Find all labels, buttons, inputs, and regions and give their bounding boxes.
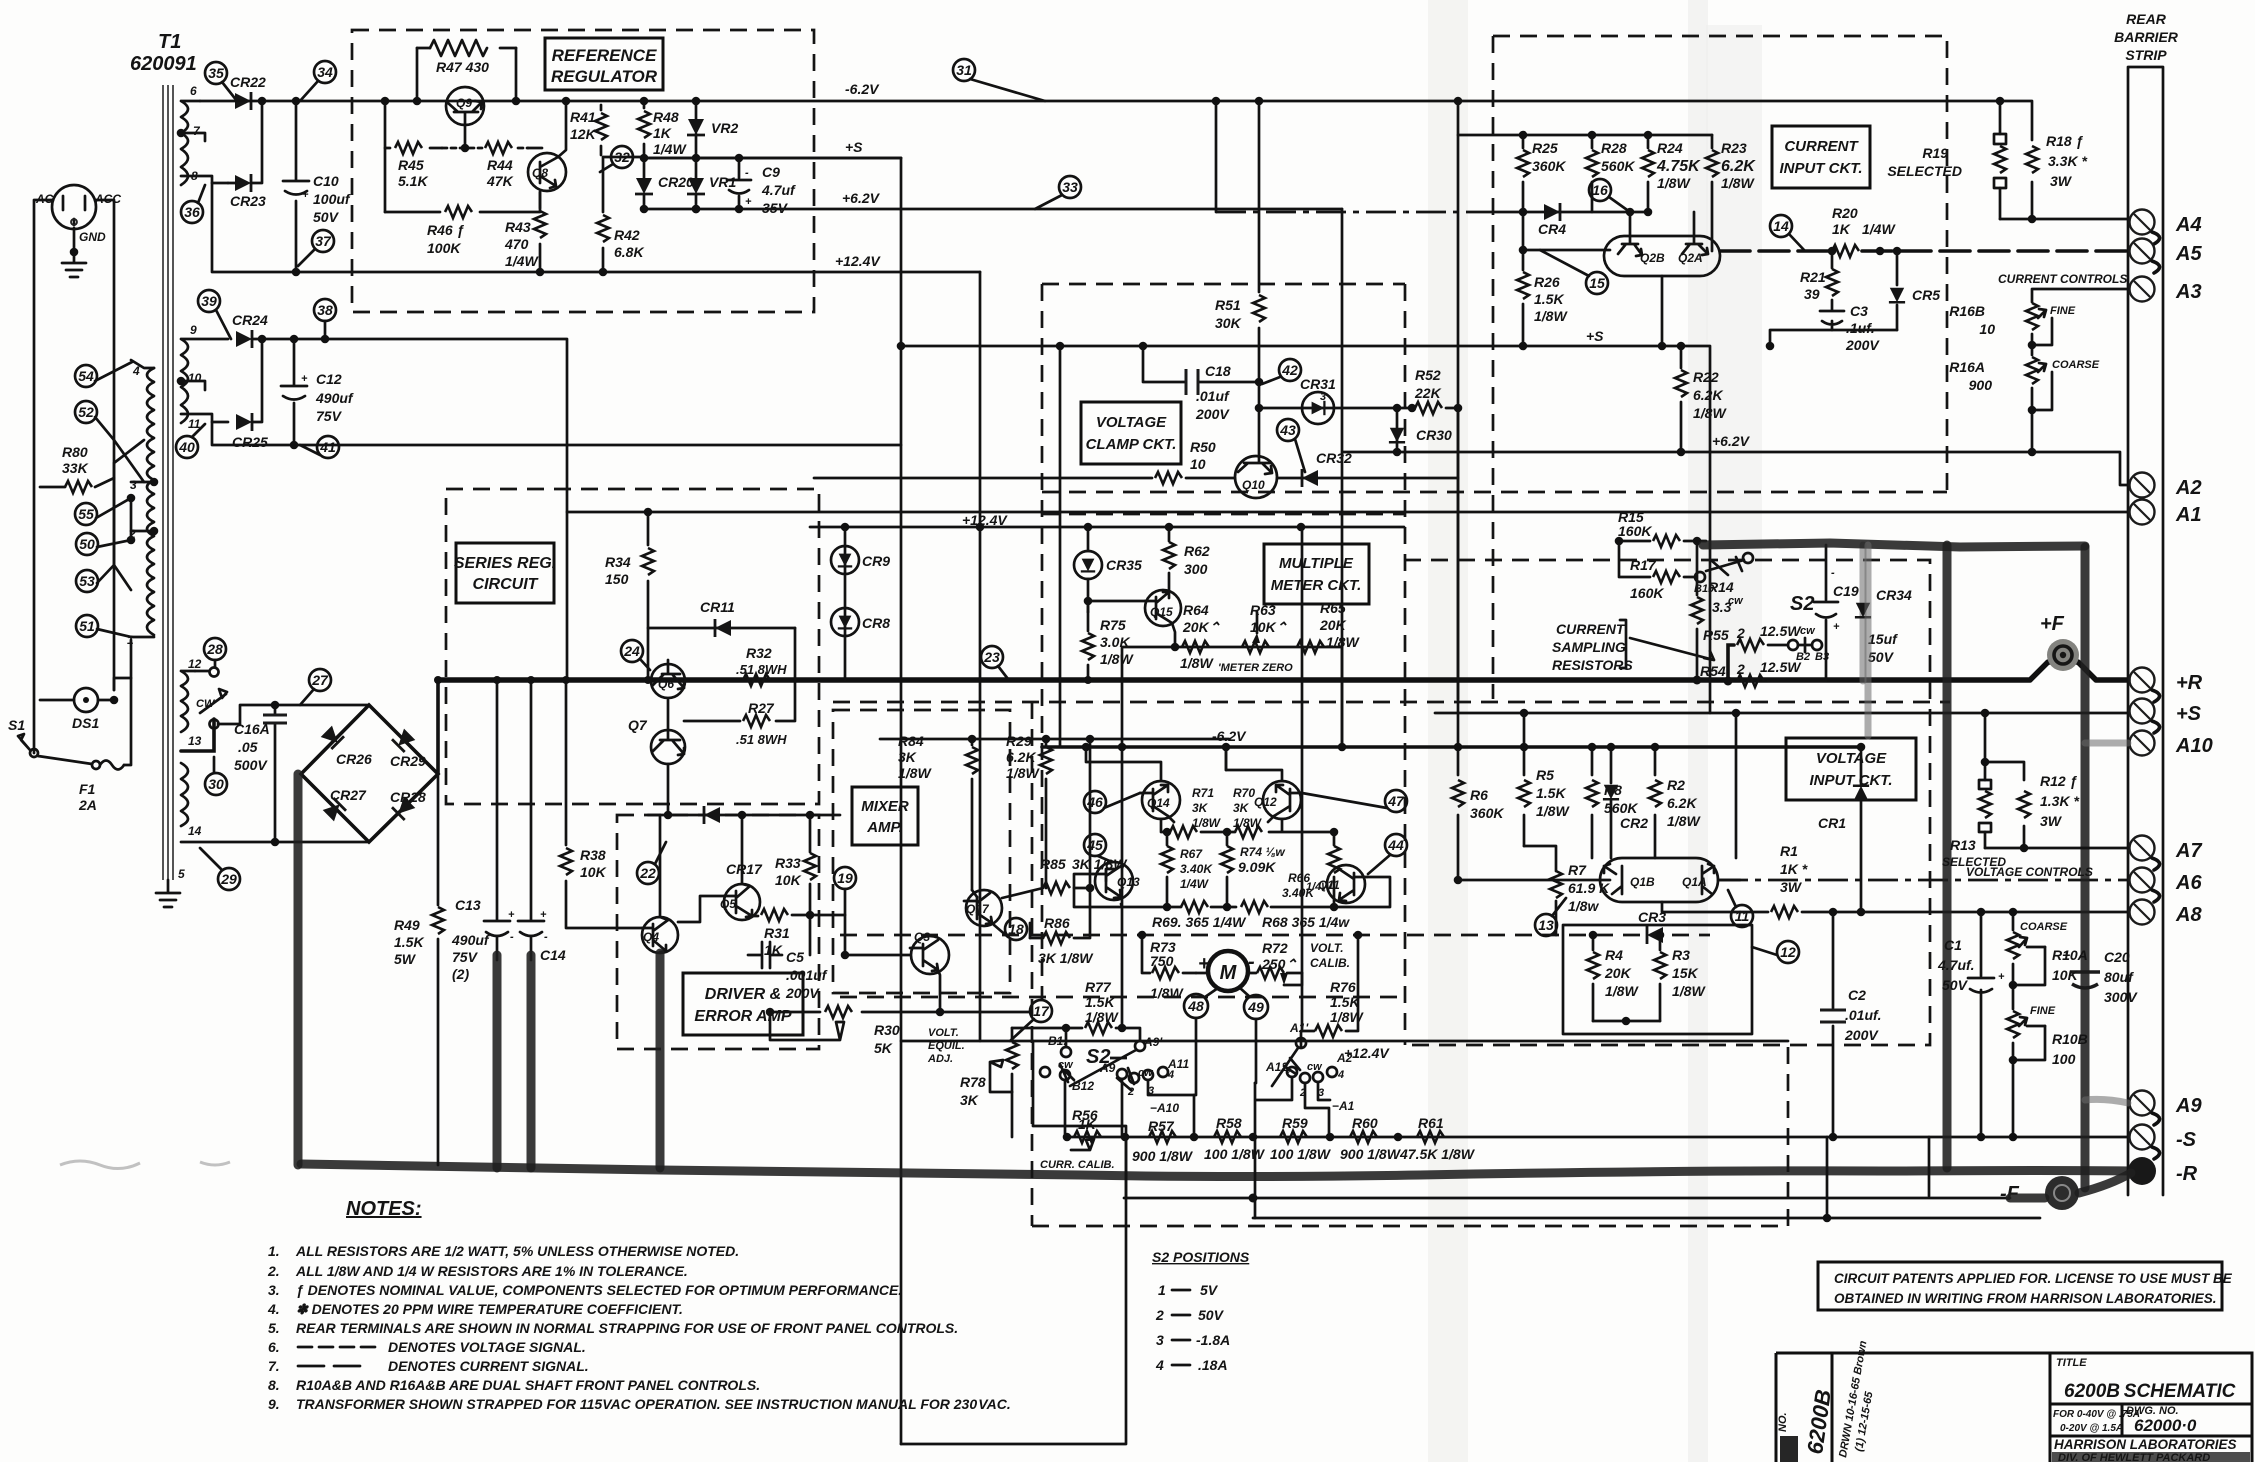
svg-text:35V: 35V xyxy=(762,200,789,216)
svg-text:R54: R54 xyxy=(1700,663,1726,679)
heavy wire Q4 emitter down xyxy=(656,953,665,1168)
wire -6.2 feed xyxy=(1082,743,1091,752)
svg-text:R10B: R10B xyxy=(2052,1031,2088,1047)
wire C3 CR5 bottom xyxy=(1770,330,1897,346)
svg-text:+6.2V: +6.2V xyxy=(1712,433,1751,449)
svg-text:.51 8WH: .51 8WH xyxy=(736,732,787,747)
resistor R18 xyxy=(2000,101,2087,223)
svg-text:100 1/8W: 100 1/8W xyxy=(1204,1146,1266,1162)
wire y1198 xyxy=(1124,1197,2010,1200)
svg-text:CURRENT CONTROLS: CURRENT CONTROLS xyxy=(1998,272,2127,286)
svg-text:R60: R60 xyxy=(1352,1115,1378,1131)
resistor R59 xyxy=(1270,1115,1332,1162)
svg-text:S2: S2 xyxy=(1790,593,1814,615)
svg-text:R29: R29 xyxy=(1006,733,1032,749)
svg-text:+F: +F xyxy=(2040,613,2065,635)
svg-text:R42: R42 xyxy=(614,227,640,243)
resistor R24 xyxy=(1642,135,1701,212)
wire +6.2V right xyxy=(1342,209,2128,747)
resistor R21 xyxy=(1800,251,1838,310)
svg-text:+: + xyxy=(1998,971,2005,983)
svg-text:R3: R3 xyxy=(1672,947,1690,963)
svg-text:43: 43 xyxy=(1279,422,1296,438)
svg-text:R51: R51 xyxy=(1215,297,1241,313)
terminal A5 xyxy=(2130,239,2203,274)
svg-text:1.5K: 1.5K xyxy=(1536,785,1566,801)
svg-text:52: 52 xyxy=(78,404,94,420)
node 40 xyxy=(176,424,205,458)
resistor R85 xyxy=(1002,735,1128,898)
svg-text:CALIB.: CALIB. xyxy=(1310,956,1350,970)
svg-text:13: 13 xyxy=(188,734,202,748)
svg-text:Q1A: Q1A xyxy=(1682,875,1707,889)
node 51 xyxy=(76,615,131,637)
wire Q4 collector xyxy=(660,815,668,920)
svg-text:1/8W: 1/8W xyxy=(1721,175,1755,191)
svg-text:6.2K: 6.2K xyxy=(1006,749,1036,765)
transistor Q3 xyxy=(910,930,949,974)
svg-text:160K: 160K xyxy=(1618,523,1652,539)
svg-text:Q11: Q11 xyxy=(1318,878,1340,892)
svg-text:3K 1/8W: 3K 1/8W xyxy=(1038,950,1094,966)
svg-text:48: 48 xyxy=(1187,998,1204,1014)
svg-text:4.75K: 4.75K xyxy=(1656,158,1701,175)
svg-text:-6.2V: -6.2V xyxy=(845,81,880,97)
resistor R42 xyxy=(597,157,644,276)
svg-text:22: 22 xyxy=(639,865,656,881)
svg-text:Q5: Q5 xyxy=(720,897,736,911)
svg-text:17: 17 xyxy=(1033,1003,1050,1019)
transistor Q5 xyxy=(720,884,760,920)
meter M xyxy=(1196,951,1256,991)
scan artifact bands xyxy=(1428,0,1468,1462)
svg-text:R84: R84 xyxy=(898,733,924,749)
svg-text:900: 900 xyxy=(1969,377,1993,393)
switch S2 wafer A right xyxy=(1249,1021,1355,1218)
svg-text:B1.: B1. xyxy=(1048,1034,1067,1048)
diode CR31 xyxy=(1300,376,1336,424)
svg-text:6.: 6. xyxy=(268,1339,280,1355)
svg-text:A4: A4 xyxy=(2175,214,2202,236)
node 14 xyxy=(1770,215,1805,251)
svg-text:54: 54 xyxy=(78,368,94,384)
svg-text:50V: 50V xyxy=(1198,1307,1225,1323)
svg-text:CURRENT: CURRENT xyxy=(1784,138,1859,155)
svg-text:6.2K: 6.2K xyxy=(1693,387,1723,403)
svg-text:R20: R20 xyxy=(1832,205,1858,221)
svg-text:EQUIL.: EQUIL. xyxy=(928,1040,965,1052)
winding secondary 12-13 xyxy=(181,671,195,732)
wire 41 line xyxy=(212,422,901,445)
resistor R58 xyxy=(1204,1115,1266,1162)
wire +12.4 meter rail xyxy=(810,526,1404,529)
svg-text:470: 470 xyxy=(504,236,529,252)
capacitor C2 xyxy=(1820,912,1882,1141)
node 39 xyxy=(198,290,231,339)
capacitor C10 xyxy=(283,101,351,272)
node 33 xyxy=(1035,176,1081,209)
resistor R13 xyxy=(1942,709,2006,869)
svg-text:R43: R43 xyxy=(505,219,531,235)
svg-text:12: 12 xyxy=(1780,944,1796,960)
transistor Q15 xyxy=(1145,590,1181,626)
diode CR3 xyxy=(1638,909,1666,944)
transistor Q12 xyxy=(1254,781,1302,819)
bus +R thick xyxy=(438,662,2128,680)
svg-text:-: - xyxy=(1248,951,1255,973)
svg-text:R80: R80 xyxy=(62,444,88,460)
svg-text:Q13: Q13 xyxy=(1117,875,1140,889)
svg-text:Q10: Q10 xyxy=(1242,478,1265,492)
wire x1122 long xyxy=(1121,747,1124,1028)
resistor R50 xyxy=(814,439,1235,484)
svg-text:1/8W: 1/8W xyxy=(1534,308,1568,324)
wire Q13 base xyxy=(1106,869,1114,881)
svg-text:R71: R71 xyxy=(1192,786,1214,800)
svg-text:VOLT.: VOLT. xyxy=(1310,941,1344,955)
svg-text:S1: S1 xyxy=(8,717,25,733)
svg-text:BARRIER: BARRIER xyxy=(2114,29,2179,45)
svg-text:6: 6 xyxy=(190,84,197,98)
svg-text:1/8W: 1/8W xyxy=(1605,983,1639,999)
svg-text:C3: C3 xyxy=(1850,303,1868,319)
potentiometer R78 xyxy=(960,1024,1070,1137)
svg-text:R86: R86 xyxy=(1044,915,1070,931)
node 53 xyxy=(76,565,114,592)
svg-text:Q3: Q3 xyxy=(914,930,930,944)
svg-text:1.3K *: 1.3K * xyxy=(2040,793,2079,809)
label series reg circuit xyxy=(454,543,556,603)
terminal +R xyxy=(2130,668,2203,703)
svg-text:7: 7 xyxy=(193,124,201,138)
svg-text:5K: 5K xyxy=(874,1040,893,1056)
svg-text:28: 28 xyxy=(206,641,223,657)
svg-text:CR20: CR20 xyxy=(658,174,694,190)
resistor R64 xyxy=(1182,602,1221,653)
svg-text:15K: 15K xyxy=(1672,965,1699,981)
svg-text:−A1: −A1 xyxy=(1332,1099,1355,1113)
wire meter leads down xyxy=(1194,1018,1256,1095)
resistor R47 xyxy=(417,40,516,101)
wire +S jog xyxy=(1143,346,1710,713)
svg-text:R85: R85 xyxy=(1040,856,1066,872)
resistor R73 xyxy=(1150,939,1196,1001)
node 45 xyxy=(1084,834,1112,862)
svg-text:cw: cw xyxy=(1307,1061,1323,1073)
svg-text:R47 430: R47 430 xyxy=(436,59,489,75)
svg-text:0-20V @ 1.5A: 0-20V @ 1.5A xyxy=(2060,1423,2123,1434)
svg-text:A1: A1 xyxy=(2175,504,2202,526)
svg-text:GND: GND xyxy=(79,230,106,244)
svg-text:.01uf: .01uf xyxy=(1196,388,1230,404)
svg-text:3W: 3W xyxy=(2040,813,2063,829)
svg-text:3K: 3K xyxy=(898,749,917,765)
svg-text:500V: 500V xyxy=(234,757,268,773)
potentiometer R16B xyxy=(1949,303,2076,355)
capacitor C9 xyxy=(727,154,796,216)
svg-text:R48: R48 xyxy=(653,109,679,125)
svg-text:1/8W: 1/8W xyxy=(1657,175,1691,191)
svg-text:R32: R32 xyxy=(746,645,772,661)
svg-text:SAMPLING: SAMPLING xyxy=(1552,639,1626,655)
svg-text:R38: R38 xyxy=(580,847,606,863)
svg-text:A10: A10 xyxy=(2175,735,2213,757)
svg-text:B12: B12 xyxy=(1072,1079,1094,1093)
svg-text:300: 300 xyxy=(1184,561,1208,577)
svg-text:250⌃: 250⌃ xyxy=(1261,956,1297,972)
wire tap13 xyxy=(181,719,214,751)
svg-text:53: 53 xyxy=(79,573,95,589)
svg-text:ƒ DENOTES NOMINAL VALUE, COMPO: ƒ DENOTES NOMINAL VALUE, COMPONENTS SELE… xyxy=(296,1282,902,1298)
node 44 xyxy=(1368,834,1407,874)
svg-text:14: 14 xyxy=(1773,218,1789,234)
svg-text:1/8W: 1/8W xyxy=(1693,405,1727,421)
label reference regulator xyxy=(545,38,663,90)
capacitor C16A xyxy=(218,705,369,842)
svg-text:R45: R45 xyxy=(398,157,424,173)
svg-text:1.5K: 1.5K xyxy=(1330,994,1360,1010)
node 15 xyxy=(1540,250,1608,294)
svg-text:900 1/8W: 900 1/8W xyxy=(1132,1148,1194,1164)
resistor R48 xyxy=(638,97,687,163)
svg-text:R64: R64 xyxy=(1183,602,1209,618)
resistor R55 xyxy=(1703,623,1829,680)
node 30 xyxy=(205,757,227,795)
svg-text:CR31: CR31 xyxy=(1300,376,1336,392)
potentiometer R30 xyxy=(766,1006,940,1056)
svg-text:CURRENT: CURRENT xyxy=(1556,621,1626,637)
svg-text:1K *: 1K * xyxy=(1780,861,1808,877)
resistor R60 xyxy=(1340,1115,1402,1162)
resistor R6 xyxy=(1452,135,1504,884)
resistor R23 xyxy=(1706,135,1756,251)
svg-text:5: 5 xyxy=(178,867,185,881)
svg-text:49: 49 xyxy=(1247,999,1264,1015)
wire y346 xyxy=(901,345,1143,348)
svg-text:+: + xyxy=(301,373,308,385)
resistor R76 xyxy=(1301,931,1364,1047)
svg-text:C18: C18 xyxy=(1205,363,1231,379)
terminal A6 xyxy=(2130,868,2203,903)
transistor Q8 xyxy=(528,148,566,191)
svg-text:10: 10 xyxy=(188,371,202,385)
svg-text:A5: A5 xyxy=(2175,243,2202,265)
wire base line xyxy=(810,915,910,955)
faint pencil mark xyxy=(60,1161,230,1169)
wire CR31 line xyxy=(1259,407,1412,410)
svg-text:23: 23 xyxy=(983,649,1000,665)
svg-text:SERIES REG.: SERIES REG. xyxy=(454,555,556,572)
svg-text:VR2: VR2 xyxy=(711,120,738,136)
svg-text:3K: 3K xyxy=(1233,801,1250,815)
svg-text:NO.: NO. xyxy=(1777,1412,1789,1432)
fuse -F xyxy=(2000,1173,2131,1210)
node 55 xyxy=(75,498,131,525)
svg-text:-: - xyxy=(544,931,548,943)
dashed line y699 xyxy=(833,701,1950,704)
grey smudge A9 xyxy=(2085,1099,2128,1103)
resistor R1 xyxy=(1740,843,2128,918)
svg-text:1/8W: 1/8W xyxy=(1100,651,1134,667)
svg-text:2: 2 xyxy=(1127,1086,1134,1098)
svg-text:R33: R33 xyxy=(775,855,801,871)
resistor R8 xyxy=(1586,743,1638,858)
svg-text:6.8K: 6.8K xyxy=(614,244,644,260)
terminal A7 xyxy=(2130,836,2203,871)
svg-text:1.: 1. xyxy=(268,1243,280,1259)
svg-text:R19: R19 xyxy=(1922,145,1948,161)
resistor R41 xyxy=(570,105,607,155)
svg-text:R10A&B AND R16A&B ARE DUAL SHA: R10A&B AND R16A&B ARE DUAL SHAFT FRONT P… xyxy=(296,1377,760,1393)
wire crossing xyxy=(114,440,144,590)
svg-text:1.5K: 1.5K xyxy=(1085,994,1115,1010)
capacitor C18 xyxy=(1143,346,1263,422)
svg-text:AMP.: AMP. xyxy=(866,819,903,836)
resistor R61 xyxy=(1399,1115,1476,1162)
svg-text:(2): (2) xyxy=(452,966,469,982)
svg-text:R18 ƒ: R18 ƒ xyxy=(2046,133,2084,149)
dashed line clamp bottom xyxy=(1042,491,1947,494)
potentiometer R63 xyxy=(1242,602,1288,653)
node 29 xyxy=(200,848,240,890)
svg-text:R61: R61 xyxy=(1418,1115,1444,1131)
svg-text:OBTAINED IN WRITING FROM HARR: OBTAINED IN WRITING FROM HARRISON LABORA… xyxy=(1834,1291,2217,1306)
svg-text:S2 POSITIONS: S2 POSITIONS xyxy=(1152,1249,1250,1265)
svg-text:CIRCUIT: CIRCUIT xyxy=(473,576,539,593)
svg-text:STRIP: STRIP xyxy=(2125,47,2167,63)
svg-text:R26: R26 xyxy=(1534,274,1560,290)
svg-text:5.: 5. xyxy=(268,1320,280,1336)
svg-text:CR9: CR9 xyxy=(862,553,890,569)
svg-text:RESISTORS: RESISTORS xyxy=(1552,657,1633,673)
svg-text:A11: A11 xyxy=(1167,1057,1189,1071)
svg-text:CR25: CR25 xyxy=(232,434,268,450)
svg-text:R5: R5 xyxy=(1536,767,1554,783)
svg-text:1K: 1K xyxy=(653,125,672,141)
wire +12.4V lower xyxy=(901,1040,1788,1043)
svg-text:1/8W: 1/8W xyxy=(1192,816,1222,830)
svg-text:R41: R41 xyxy=(570,109,596,125)
svg-text:R50: R50 xyxy=(1190,439,1216,455)
svg-text:R62: R62 xyxy=(1184,543,1210,559)
svg-text:36: 36 xyxy=(184,204,200,220)
svg-text:1/8W: 1/8W xyxy=(1672,983,1706,999)
svg-text:R52: R52 xyxy=(1415,367,1441,383)
svg-text:C13: C13 xyxy=(455,897,481,913)
svg-text:CR4: CR4 xyxy=(1538,221,1566,237)
wire Q5 base xyxy=(678,896,724,922)
resistor R32 xyxy=(736,645,787,686)
terminal A3 xyxy=(2130,277,2202,304)
svg-text:R7: R7 xyxy=(1568,862,1587,878)
svg-text:5W: 5W xyxy=(394,951,417,967)
label driver error amp xyxy=(683,973,803,1035)
diode CR4 xyxy=(1493,203,1652,237)
barrier strip rails xyxy=(2128,67,2163,1195)
svg-text:2: 2 xyxy=(1155,1307,1164,1323)
svg-text:R46 ƒ: R46 ƒ xyxy=(427,222,465,238)
transistor Q10 xyxy=(1235,382,1277,498)
svg-text:DIV. OF HEWLETT PACKARD: DIV. OF HEWLETT PACKARD xyxy=(2058,1452,2210,1462)
transistor Q13 xyxy=(1093,862,1140,900)
svg-text:Q4: Q4 xyxy=(643,930,659,944)
svg-text:F1: F1 xyxy=(79,781,96,797)
wire Q7 emitter xyxy=(667,764,670,815)
svg-text:VOLTAGE CONTROLS: VOLTAGE CONTROLS xyxy=(1966,865,2093,879)
svg-text:38: 38 xyxy=(317,302,333,318)
svg-text:490uf: 490uf xyxy=(315,390,354,406)
svg-text:24: 24 xyxy=(623,643,640,659)
terminal A4 xyxy=(2130,210,2202,245)
svg-text:8.: 8. xyxy=(268,1377,280,1393)
resistor R44 xyxy=(442,142,528,189)
node 27 xyxy=(300,669,331,705)
svg-text:DS1: DS1 xyxy=(72,715,99,731)
wire Q11 collector xyxy=(1334,877,1390,907)
svg-text:R49: R49 xyxy=(394,917,420,933)
svg-text:CIRCUIT PATENTS APPLIED FOR.: CIRCUIT PATENTS APPLIED FOR. LICENSE TO … xyxy=(1834,1271,2233,1286)
svg-text:+: + xyxy=(745,196,752,208)
resistor R20 xyxy=(1828,205,1897,257)
svg-text:31: 31 xyxy=(956,62,972,78)
svg-text:COARSE: COARSE xyxy=(2020,921,2068,933)
svg-text:Q12: Q12 xyxy=(1254,795,1277,809)
svg-text:10K⌃: 10K⌃ xyxy=(1250,619,1288,635)
svg-text:C2: C2 xyxy=(1848,987,1866,1003)
wire xyxy=(114,678,131,690)
svg-text:C10: C10 xyxy=(313,173,339,189)
wire A1 long xyxy=(567,511,2128,514)
potentiometer R10A xyxy=(2007,908,2088,1009)
diode CR35 xyxy=(1074,527,1142,612)
resistor R52 xyxy=(1408,367,1463,414)
svg-text:C20: C20 xyxy=(2104,949,2130,965)
svg-text:R74 ⅛w: R74 ⅛w xyxy=(1240,845,1285,859)
svg-text:CR5: CR5 xyxy=(1912,287,1940,303)
svg-text:6.2K: 6.2K xyxy=(1721,158,1756,175)
diode CR20 xyxy=(635,158,694,213)
dashed line current calib box xyxy=(1032,702,1788,1226)
svg-text:R22: R22 xyxy=(1693,369,1719,385)
wire raw dc xyxy=(252,339,567,680)
wire Q3 emitter xyxy=(938,970,940,1012)
svg-text:−A10: −A10 xyxy=(1150,1101,1179,1115)
svg-text:CR23: CR23 xyxy=(230,193,266,209)
svg-text:3K: 3K xyxy=(960,1092,979,1108)
svg-text:35: 35 xyxy=(208,65,224,81)
transistor Q17 xyxy=(964,890,1002,926)
wire y1218 xyxy=(1253,1217,2040,1220)
svg-text:62000·0: 62000·0 xyxy=(2134,1416,2197,1435)
wire tap10 xyxy=(181,381,205,390)
svg-text:R1: R1 xyxy=(1780,843,1798,859)
wire top feed xyxy=(1458,101,1712,135)
svg-text:-: - xyxy=(1831,567,1835,579)
resistor R69 xyxy=(1152,901,1247,930)
svg-text:R4: R4 xyxy=(1605,947,1623,963)
resistor R75 xyxy=(1082,612,1134,684)
svg-text:.01uf.: .01uf. xyxy=(1845,1007,1882,1023)
svg-text:50V: 50V xyxy=(1868,649,1895,665)
svg-text:A7: A7 xyxy=(2175,840,2202,862)
transistor pair Q1B Q1A xyxy=(1458,858,1740,902)
node 23 xyxy=(981,646,1008,679)
svg-text:1.5K: 1.5K xyxy=(394,934,424,950)
svg-text:VOLT.: VOLT. xyxy=(928,1027,959,1039)
svg-text:30K: 30K xyxy=(1215,315,1242,331)
svg-text:+: + xyxy=(1833,621,1840,633)
svg-text:1/8W: 1/8W xyxy=(1085,1009,1119,1025)
